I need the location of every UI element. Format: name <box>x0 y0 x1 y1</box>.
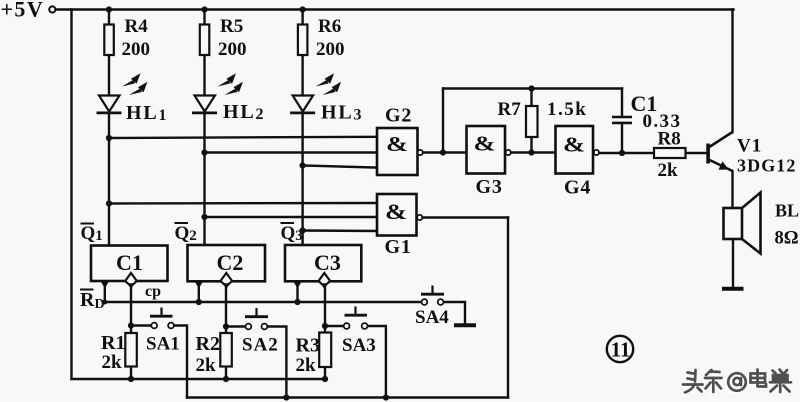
wire C3 clock vertical <box>324 286 326 379</box>
wire SA1 left <box>131 324 151 326</box>
svg-text:Q2: Q2 <box>175 223 197 244</box>
svg-text:G3: G3 <box>476 176 503 198</box>
ground below speaker <box>722 287 744 291</box>
switch SA3 <box>344 323 368 329</box>
svg-text:SA3: SA3 <box>342 335 376 356</box>
junction Q3-G1 <box>300 227 306 233</box>
junction HL3-G2 <box>300 162 306 168</box>
junction rail-R6 <box>300 6 306 12</box>
wire speaker to ground <box>732 239 734 288</box>
switch SA1 <box>151 323 174 329</box>
svg-text:R6: R6 <box>318 16 341 37</box>
svg-text:C2: C2 <box>217 250 244 275</box>
junction SA3-bus <box>383 394 389 400</box>
svg-text:RD: RD <box>80 289 105 312</box>
junction SA2-bus <box>283 394 289 400</box>
junction R3 bottom <box>322 376 328 382</box>
junction R7 top <box>528 85 534 91</box>
junction cp3-R3-SA3 <box>322 323 328 329</box>
wire C1 cap bottom lead <box>621 123 623 153</box>
wire G1 input 2 <box>205 216 378 218</box>
svg-text:HL2: HL2 <box>223 101 265 123</box>
wire G2 input 3 <box>303 166 377 168</box>
resistor R4 <box>104 25 114 56</box>
wire G1 input 3 <box>303 229 377 232</box>
ground at SA4 <box>454 323 476 327</box>
wire G2 output to G3 <box>423 151 467 153</box>
wire collector drop right <box>731 10 733 133</box>
wire SA3 left <box>325 325 344 327</box>
wire G3 output to G4 <box>511 151 556 153</box>
svg-text:SA1: SA1 <box>146 334 180 355</box>
svg-text:2k: 2k <box>196 355 217 376</box>
wire G2 input 2 <box>205 151 378 153</box>
svg-text:R7: R7 <box>498 99 522 120</box>
svg-text:&: & <box>386 132 408 156</box>
wire left vertical from +5V <box>70 10 72 380</box>
svg-text:11: 11 <box>611 338 631 362</box>
G3 output bubble <box>506 150 511 155</box>
junction Q2-G1 <box>201 214 207 220</box>
svg-text:8Ω: 8Ω <box>775 229 799 249</box>
resistor R6 <box>298 25 308 56</box>
nand gate G3 box <box>467 126 506 174</box>
svg-text:G4: G4 <box>564 177 591 199</box>
wire right return vertical <box>507 218 509 398</box>
wire G4 output to transistor base <box>599 152 707 154</box>
svg-text:2k: 2k <box>296 355 317 376</box>
wire C1 cap top lead <box>621 89 623 117</box>
junction RD-C3 stub <box>294 299 300 305</box>
flip-flop C3 reset arrowhead <box>294 282 302 289</box>
junction rail-R5 <box>201 6 207 12</box>
svg-text:&: & <box>474 132 496 156</box>
wire SA1 right <box>174 326 187 398</box>
G2 output bubble <box>418 150 423 155</box>
svg-text:HL3: HL3 <box>321 102 363 124</box>
svg-text:BL: BL <box>775 201 799 221</box>
junction node A feedback <box>440 149 446 155</box>
junction C1 cap bottom <box>619 150 625 156</box>
junction R2 bottom <box>223 376 229 382</box>
wire C1 clock vertical <box>130 286 132 379</box>
resistor R7 <box>526 106 538 137</box>
LED HL2 <box>192 73 243 113</box>
wire feedback vertical at node A <box>442 89 444 153</box>
junction rail-R4 <box>106 6 112 12</box>
flip-flop C3 clock wedge <box>319 273 331 289</box>
wire feedback top horizontal <box>443 87 622 89</box>
terminal +5V <box>49 6 55 12</box>
transistor V1 <box>706 132 732 171</box>
wire SA3 right <box>367 326 386 398</box>
wire bottom resistor bus <box>72 378 326 380</box>
svg-text:Q1: Q1 <box>81 223 103 244</box>
junction HL2-G2 <box>201 149 207 155</box>
wire C2 clock vertical <box>225 286 227 379</box>
svg-text:R3: R3 <box>296 335 320 357</box>
svg-text:V1: V1 <box>737 136 762 157</box>
resistor R1 <box>125 333 137 367</box>
figure number 11 circled <box>607 336 633 362</box>
svg-text:200: 200 <box>218 39 247 60</box>
svg-text:+5V: +5V <box>1 0 45 22</box>
junction cp1-R1-SA1 <box>128 322 134 328</box>
junction cp2-R2-SA2 <box>223 323 229 329</box>
svg-text:Q3: Q3 <box>281 223 303 244</box>
svg-text:200: 200 <box>122 39 151 60</box>
wire RD reset bus <box>105 301 422 303</box>
junction R7 bottom <box>528 149 534 155</box>
LED HL3 <box>290 73 341 113</box>
wire branch 1 vertical <box>108 10 110 246</box>
switch SA4 <box>422 299 444 305</box>
svg-text:SA4: SA4 <box>415 307 449 328</box>
wire bottom switch bus <box>187 396 508 398</box>
junction RD-C1 stub <box>102 300 107 305</box>
junction Q1-G1 <box>106 200 112 206</box>
resistor R2 <box>220 333 232 367</box>
wire emitter vertical <box>731 171 733 208</box>
svg-text:R4: R4 <box>125 16 149 37</box>
wire SA2 left <box>226 325 246 327</box>
svg-text:200: 200 <box>316 39 345 60</box>
wire C1 reset stub <box>104 281 106 302</box>
wire G1 input 1 <box>109 202 377 205</box>
svg-text:R2: R2 <box>196 333 220 355</box>
flip-flop C2 box <box>188 245 266 281</box>
svg-text:C1: C1 <box>116 250 143 275</box>
svg-text:R5: R5 <box>220 16 243 37</box>
svg-text:&: & <box>563 133 585 157</box>
junction R1 bottom <box>128 376 134 382</box>
svg-text:HL1: HL1 <box>126 102 168 124</box>
svg-text:1.5k: 1.5k <box>547 99 587 120</box>
wire G1 output horizontal <box>422 216 508 218</box>
resistor R8 <box>654 148 686 158</box>
svg-text:&: & <box>385 199 407 224</box>
speaker BL <box>724 193 761 254</box>
nand gate G1 box <box>377 194 417 236</box>
svg-text:G2: G2 <box>385 105 412 127</box>
wire top +5V rail <box>56 8 734 10</box>
svg-text:C3: C3 <box>314 250 341 275</box>
junction HL1-G2 <box>106 135 112 141</box>
svg-text:2k: 2k <box>658 160 679 181</box>
LED HL1 <box>97 73 148 113</box>
wire R7 vertical <box>530 89 532 153</box>
flip-flop C2 clock wedge <box>221 273 233 289</box>
wire SA4 right to ground <box>444 302 466 324</box>
svg-text:R1: R1 <box>101 332 125 354</box>
wire C3 reset stub <box>296 281 298 302</box>
resistor R3 <box>319 333 331 368</box>
wire SA2 right <box>267 327 286 398</box>
switch SA2 <box>246 324 268 330</box>
wire branch 2 vertical <box>203 10 205 246</box>
junction RD-C2 stub <box>196 299 202 305</box>
G1 output bubble <box>417 215 422 220</box>
svg-text:SA2: SA2 <box>242 335 279 356</box>
svg-text:3DG12: 3DG12 <box>737 156 797 176</box>
wire branch 3 vertical <box>301 10 303 246</box>
wire C2 reset stub <box>198 281 200 302</box>
svg-text:R8: R8 <box>658 129 681 150</box>
wire G2 input 1 <box>109 137 377 138</box>
resistor R5 <box>200 25 210 56</box>
flip-flop C3 box <box>285 245 361 281</box>
G4 output bubble <box>594 150 599 155</box>
flip-flop C1 clock wedge <box>125 273 137 289</box>
nand gate G4 box <box>556 126 594 174</box>
svg-text:G1: G1 <box>385 236 412 258</box>
flip-flop C1 reset arrowhead <box>101 282 109 289</box>
svg-text:cp: cp <box>145 283 161 300</box>
flip-flop C2 reset arrowhead <box>195 282 203 289</box>
capacitor C1 plates <box>612 117 632 123</box>
svg-text:2k: 2k <box>102 352 123 373</box>
nand gate G2 box <box>377 128 418 175</box>
flip-flop C1 box <box>91 246 168 282</box>
